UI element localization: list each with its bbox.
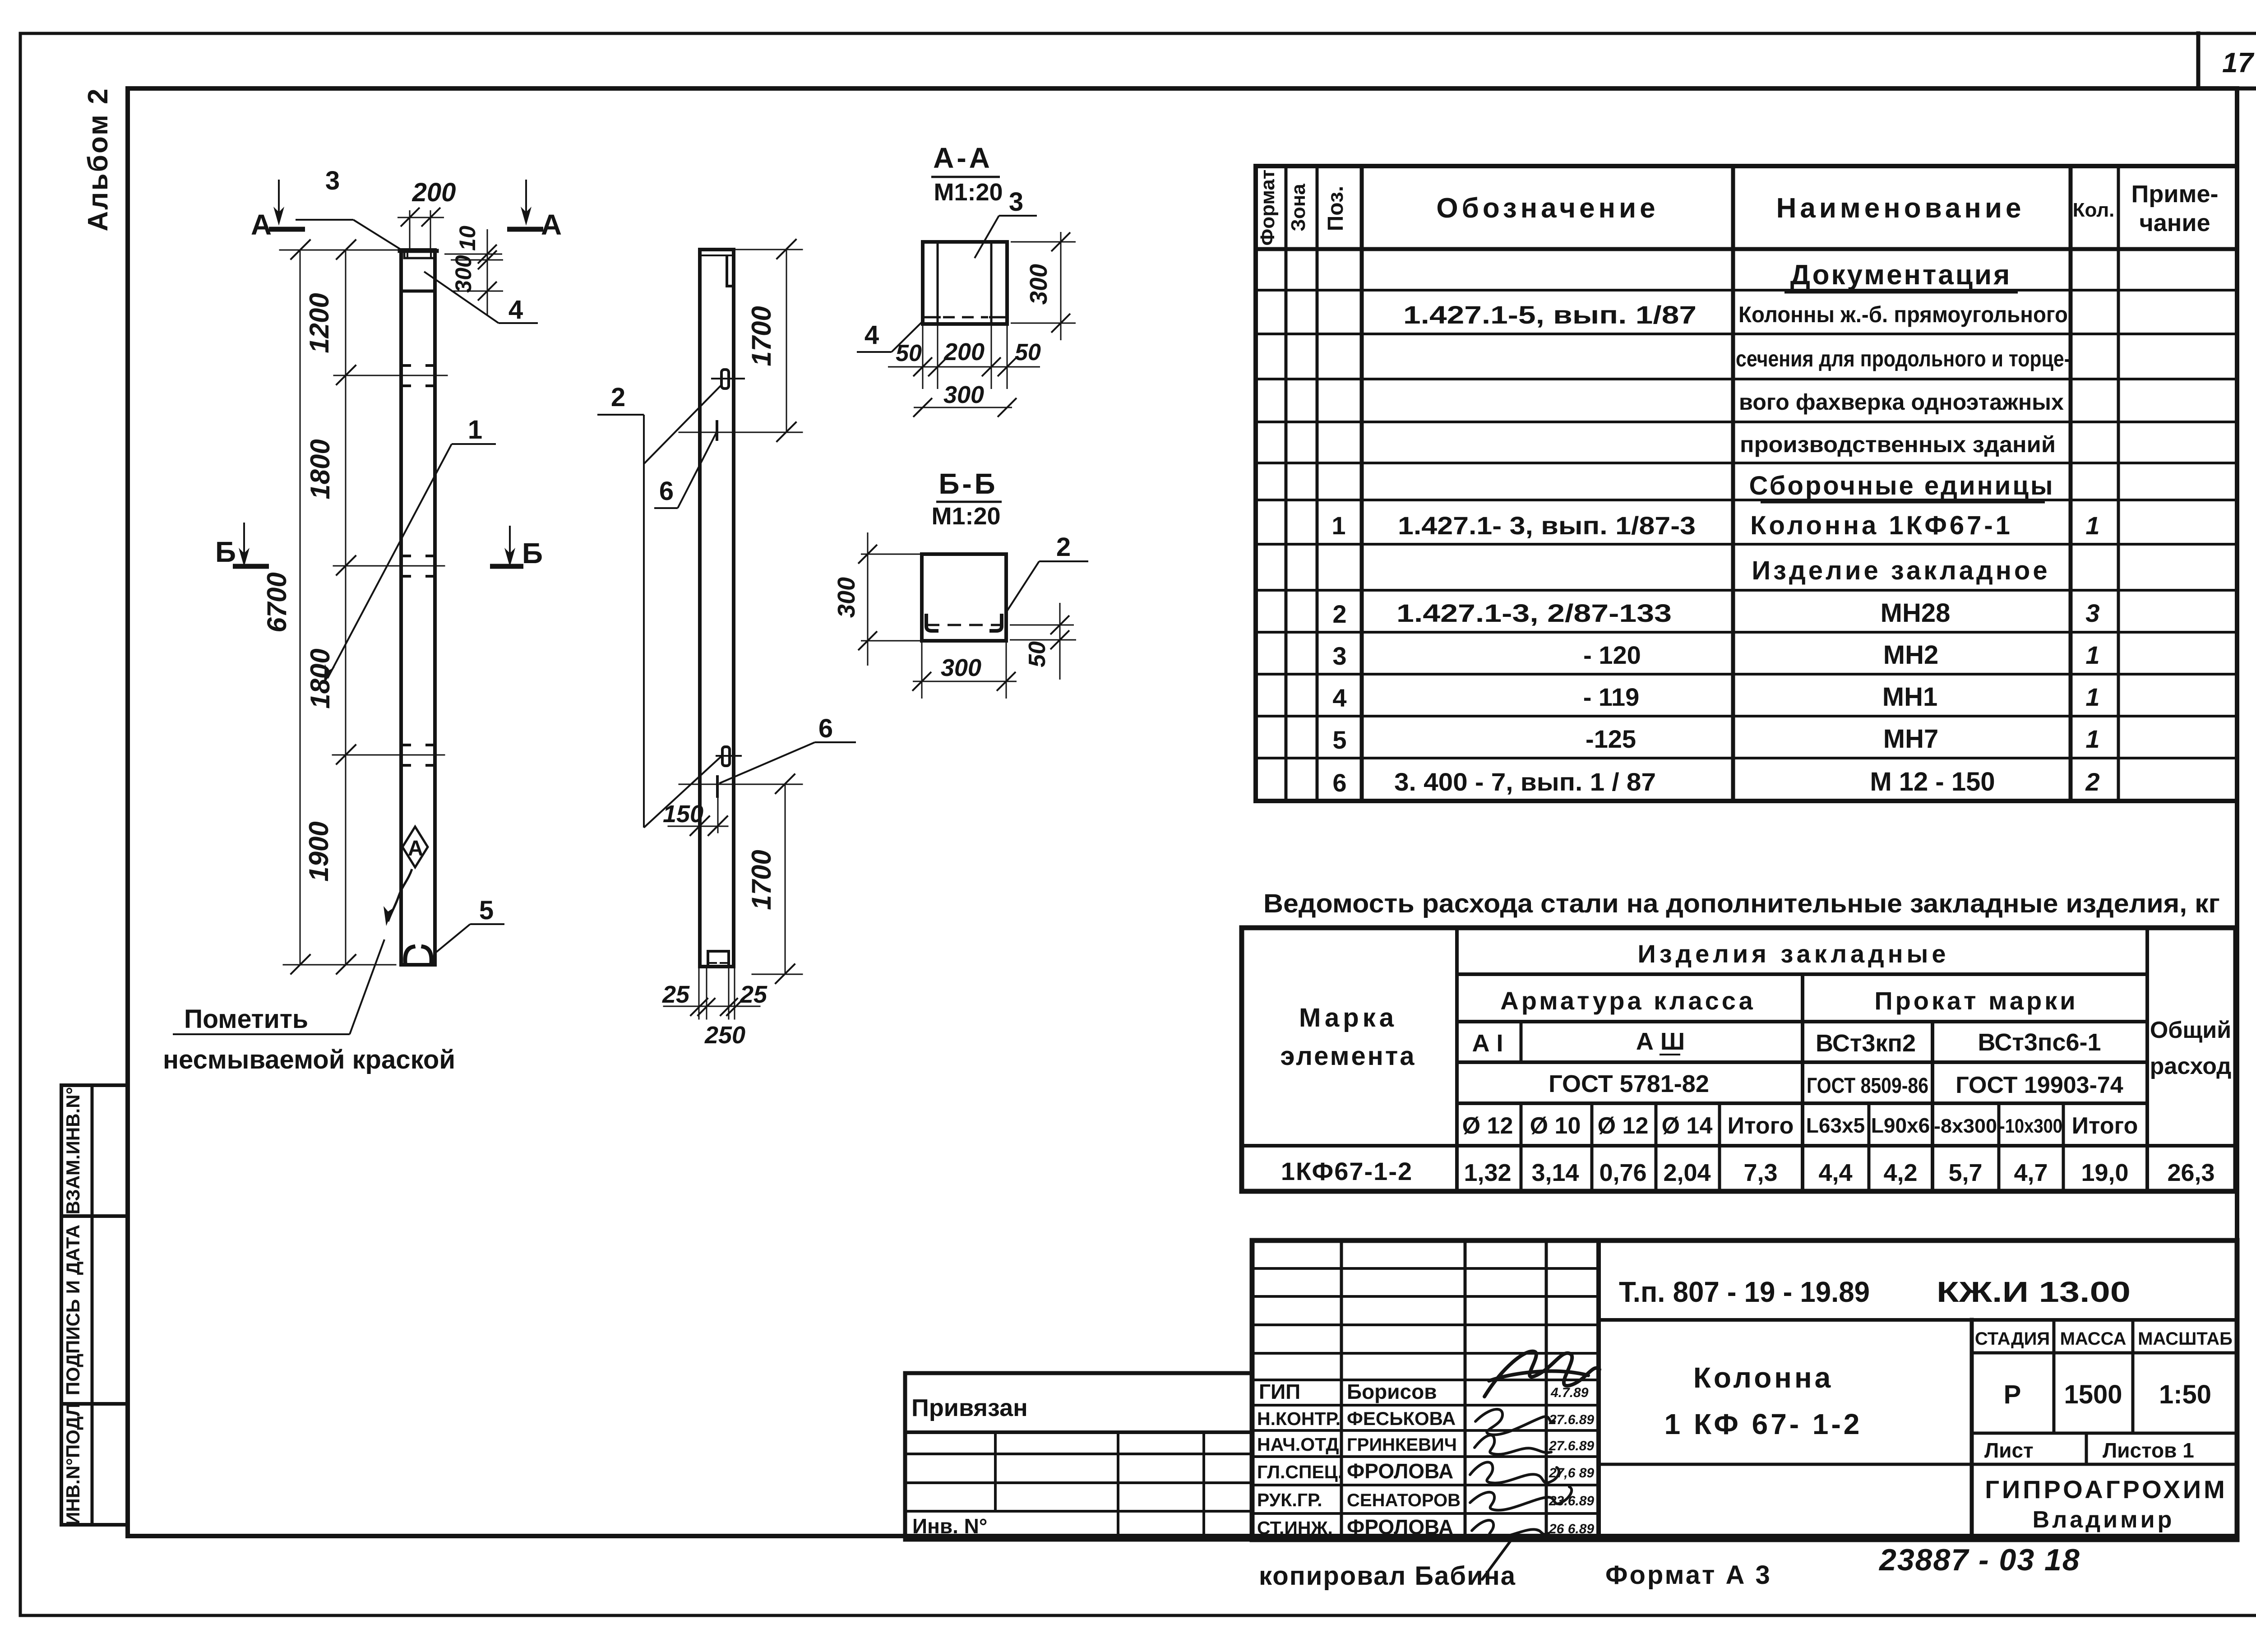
svg-text:РУК.ГР.: РУК.ГР. bbox=[1257, 1490, 1322, 1510]
svg-text:Колонна 1КФ67-1: Колонна 1КФ67-1 bbox=[1750, 511, 2013, 540]
svg-text:1900: 1900 bbox=[304, 821, 334, 881]
dim 10 and 300 right of top bbox=[444, 229, 503, 316]
svg-text:300: 300 bbox=[943, 381, 984, 408]
svg-text:1: 1 bbox=[2085, 511, 2099, 540]
svg-text:- 119: - 119 bbox=[1583, 683, 1640, 711]
svg-text:М 12 - 150: М 12 - 150 bbox=[1870, 767, 1995, 796]
svg-text:Обозначение: Обозначение bbox=[1436, 193, 1659, 224]
svg-text:300: 300 bbox=[941, 654, 981, 681]
svg-text:Б: Б bbox=[522, 537, 543, 569]
svg-text:1700: 1700 bbox=[746, 850, 777, 910]
label 1 with leader bbox=[324, 415, 496, 684]
svg-text:Поз.: Поз. bbox=[1324, 186, 1348, 231]
svg-text:3: 3 bbox=[325, 166, 340, 195]
level line at 958 bbox=[679, 432, 802, 433]
top side embed hook bbox=[727, 256, 734, 286]
svg-text:1800: 1800 bbox=[305, 648, 335, 708]
svg-text:23887 - 03 18: 23887 - 03 18 bbox=[1878, 1543, 2080, 1577]
embed slot 1 bbox=[721, 370, 729, 389]
signature dates bbox=[1549, 1385, 1594, 1536]
svg-text:Сборочные единицы: Сборочные единицы bbox=[1749, 471, 2055, 500]
svg-text:А: А bbox=[251, 208, 272, 241]
svg-text:10: 10 bbox=[455, 226, 480, 251]
svg-text:А Ш: А Ш bbox=[1636, 1028, 1685, 1055]
svg-text:МАСШТАБ: МАСШТАБ bbox=[2138, 1329, 2233, 1349]
svg-text:-125: -125 bbox=[1586, 725, 1636, 753]
svg-text:1: 1 bbox=[2085, 641, 2099, 669]
svg-text:МАССА: МАССА bbox=[2060, 1329, 2127, 1349]
signature table rows bbox=[1252, 1268, 1599, 1513]
label 6 with leader (lower right) bbox=[719, 714, 856, 783]
svg-text:Колонны ж.-б. прямоугольного: Колонны ж.-б. прямоугольного bbox=[1738, 302, 2068, 327]
svg-text:ВЗАМ.ИНВ.N°: ВЗАМ.ИНВ.N° bbox=[62, 1087, 83, 1215]
svg-text:НАЧ.ОТД.: НАЧ.ОТД. bbox=[1257, 1434, 1344, 1455]
svg-text:26,3: 26,3 bbox=[2167, 1159, 2214, 1186]
svg-text:элемента: элемента bbox=[1280, 1041, 1416, 1071]
embed bracket right at level 1673 bbox=[427, 745, 435, 765]
svg-text:ГРИНКЕВИЧ: ГРИНКЕВИЧ bbox=[1347, 1435, 1457, 1455]
tick line at 832 bbox=[334, 375, 447, 376]
extension line top bbox=[280, 250, 401, 251]
svg-text:17: 17 bbox=[2222, 47, 2254, 79]
signature Гринкевич bbox=[1475, 1435, 1551, 1454]
embed slot 2 bbox=[722, 747, 730, 766]
steel table grid bbox=[1242, 928, 2236, 1191]
svg-text:Итого: Итого bbox=[1728, 1113, 1794, 1139]
svg-text:Б-Б: Б-Б bbox=[938, 467, 998, 500]
svg-text:1,32: 1,32 bbox=[1464, 1159, 1511, 1186]
svg-text:МН2: МН2 bbox=[1883, 640, 1938, 670]
left attribute strip bbox=[61, 1085, 128, 1525]
A-A bottom dims bbox=[888, 326, 1040, 417]
slot 2 tick bbox=[717, 755, 741, 757]
svg-text:300: 300 bbox=[833, 577, 860, 618]
svg-text:Приме-: Приме- bbox=[2131, 180, 2219, 208]
top plate edge bbox=[700, 255, 734, 256]
svg-text:Листов 1: Листов 1 bbox=[2103, 1439, 2194, 1462]
signature Фролова 2 bbox=[1472, 1520, 1549, 1579]
svg-text:1500: 1500 bbox=[2064, 1380, 2122, 1409]
svg-text:-8x300: -8x300 bbox=[1934, 1115, 1997, 1137]
svg-text:КЖ.И 13.00: КЖ.И 13.00 bbox=[1937, 1276, 2131, 1308]
dimension 1700 lower bbox=[785, 784, 786, 974]
section marker Б right bbox=[490, 526, 543, 569]
svg-text:Ø 10: Ø 10 bbox=[1530, 1113, 1581, 1139]
svg-text:ВСт3кп2: ВСт3кп2 bbox=[1816, 1030, 1916, 1057]
top plate MH2 bbox=[400, 251, 437, 258]
Б-Б left dim 300 bbox=[858, 532, 922, 666]
svg-text:ГИПРОАГРОХИМ: ГИПРОАГРОХИМ bbox=[1985, 1475, 2228, 1504]
Б-Б right dim 50 bbox=[1010, 603, 1076, 680]
embedded section bottom line bbox=[401, 290, 435, 293]
signature Фролова bbox=[1470, 1462, 1559, 1483]
svg-text:3: 3 bbox=[1332, 642, 1346, 670]
svg-text:ГОСТ 5781-82: ГОСТ 5781-82 bbox=[1549, 1070, 1709, 1097]
svg-text:ПОДПИСЬ И ДАТА: ПОДПИСЬ И ДАТА bbox=[62, 1225, 83, 1395]
svg-text:А: А bbox=[408, 837, 424, 861]
svg-text:4.7.89: 4.7.89 bbox=[1550, 1385, 1589, 1400]
svg-text:27.6.89: 27.6.89 bbox=[1549, 1412, 1594, 1427]
sheet number box bbox=[2198, 33, 2256, 88]
svg-text:26 6.89: 26 6.89 bbox=[1549, 1522, 1594, 1536]
svg-text:Формат: Формат bbox=[1257, 170, 1279, 246]
dim 200 at top bbox=[398, 208, 444, 249]
svg-text:Колонна: Колонна bbox=[1693, 1361, 1833, 1394]
svg-text:1200: 1200 bbox=[304, 293, 334, 353]
title block outline bbox=[1252, 1240, 2237, 1540]
svg-text:несмываемой краской: несмываемой краской bbox=[163, 1045, 455, 1074]
signature Феськова bbox=[1475, 1409, 1554, 1435]
svg-text:5: 5 bbox=[1332, 726, 1346, 754]
plate line in A-A bbox=[923, 316, 941, 319]
label 2 with leader bbox=[597, 383, 723, 828]
svg-text:2: 2 bbox=[611, 383, 625, 412]
dimension line segments 1200/1800/1800/1900 bbox=[345, 250, 347, 965]
svg-text:Н.КОНТР.: Н.КОНТР. bbox=[1257, 1408, 1341, 1429]
svg-text:0,76: 0,76 bbox=[1599, 1159, 1646, 1186]
svg-text:Ø 12: Ø 12 bbox=[1462, 1113, 1513, 1139]
svg-text:Изделия закладные: Изделия закладные bbox=[1637, 939, 1949, 968]
svg-text:50: 50 bbox=[1024, 641, 1050, 667]
svg-text:1.427.1-3, 2/87-133: 1.427.1-3, 2/87-133 bbox=[1396, 599, 1672, 627]
level line at 1738 bbox=[679, 784, 802, 785]
main stamp area lines bbox=[1599, 1318, 2237, 1322]
column outline side view bbox=[700, 250, 734, 967]
dimension 1700 upper bbox=[786, 250, 787, 432]
row Документация bbox=[1784, 259, 2018, 292]
svg-text:Кол.: Кол. bbox=[2073, 199, 2115, 221]
svg-text:3: 3 bbox=[2085, 599, 2099, 627]
svg-text:ВСт3пс6-1: ВСт3пс6-1 bbox=[1978, 1029, 2101, 1056]
svg-text:сечения для продольного и торц: сечения для продольного и торце- bbox=[1736, 346, 2071, 371]
svg-text:4,4: 4,4 bbox=[1818, 1159, 1852, 1186]
svg-text:Формат А 3: Формат А 3 bbox=[1605, 1560, 1772, 1590]
svg-text:5: 5 bbox=[479, 896, 494, 925]
svg-text:-10x300: -10x300 bbox=[1999, 1115, 2062, 1137]
label 3 with leader bbox=[296, 166, 404, 251]
svg-text:6: 6 bbox=[1332, 768, 1346, 797]
svg-text:вого фахверка одноэтажных: вого фахверка одноэтажных bbox=[1739, 389, 2064, 415]
svg-text:1КФ67-1-2: 1КФ67-1-2 bbox=[1281, 1157, 1413, 1185]
svg-text:А-А: А-А bbox=[933, 142, 993, 174]
svg-text:19,0: 19,0 bbox=[2081, 1159, 2128, 1186]
section marker Б left bbox=[215, 523, 269, 568]
bolt mark 2 bbox=[716, 777, 719, 796]
svg-text:3. 400 - 7, вып. 1 / 87: 3. 400 - 7, вып. 1 / 87 bbox=[1394, 768, 1656, 796]
hidden plate dashed bbox=[926, 624, 1002, 626]
left extension table bbox=[905, 1373, 1252, 1540]
svg-text:ГОСТ 8509-86: ГОСТ 8509-86 bbox=[1807, 1074, 1928, 1098]
svg-text:300: 300 bbox=[451, 255, 476, 293]
corner embed left bbox=[926, 614, 938, 631]
embed bracket right at level 832 bbox=[427, 366, 435, 386]
signature Сенаторов bbox=[1470, 1487, 1572, 1510]
svg-text:производственных зданий: производственных зданий bbox=[1740, 432, 2056, 457]
tick slashes bbox=[291, 240, 356, 974]
svg-text:4: 4 bbox=[1332, 684, 1346, 712]
svg-text:4,7: 4,7 bbox=[2014, 1159, 2048, 1186]
svg-text:копировал Бабина: копировал Бабина bbox=[1259, 1561, 1516, 1591]
note Пометить несмываемой краской with leader bbox=[163, 939, 455, 1074]
section marker A right bbox=[507, 180, 562, 241]
svg-text:2: 2 bbox=[1332, 600, 1346, 628]
svg-text:Ø 14: Ø 14 bbox=[1662, 1113, 1713, 1139]
svg-text:25: 25 bbox=[740, 981, 767, 1008]
quality mark diamond with А bbox=[384, 827, 428, 926]
svg-text:Итого: Итого bbox=[2072, 1113, 2138, 1139]
svg-text:6700: 6700 bbox=[262, 572, 292, 632]
steel header АIII bbox=[1636, 1028, 1685, 1055]
svg-text:2: 2 bbox=[1056, 532, 1071, 562]
svg-text:Зона: Зона bbox=[1287, 184, 1309, 231]
svg-text:ГИП: ГИП bbox=[1259, 1380, 1300, 1403]
column outline bbox=[401, 250, 435, 965]
A-A right dim 300 bbox=[1011, 232, 1076, 340]
svg-text:300: 300 bbox=[1025, 264, 1052, 305]
svg-text:МН1: МН1 bbox=[1882, 682, 1937, 712]
svg-text:L63x5: L63x5 bbox=[1806, 1114, 1865, 1137]
svg-text:Документация: Документация bbox=[1790, 259, 2012, 291]
svg-text:СТ.ИНЖ.: СТ.ИНЖ. bbox=[1257, 1518, 1333, 1538]
svg-text:Общий: Общий bbox=[2150, 1017, 2231, 1043]
svg-text:1: 1 bbox=[2085, 725, 2099, 753]
svg-text:7,3: 7,3 bbox=[1743, 1159, 1777, 1186]
svg-text:СЕНАТОРОВ: СЕНАТОРОВ bbox=[1347, 1490, 1461, 1510]
signature table verticals bbox=[1340, 1240, 1343, 1540]
svg-text:М1:20: М1:20 bbox=[934, 179, 1003, 206]
embed bracket left at level 1673 bbox=[402, 745, 410, 765]
svg-text:1.427.1- 3, вып. 1/87-3: 1.427.1- 3, вып. 1/87-3 bbox=[1398, 511, 1696, 540]
tick line at 1254 bbox=[333, 565, 444, 567]
svg-text:Альбом 2: Альбом 2 bbox=[83, 87, 114, 231]
svg-text:Т.п. 807 - 19 - 19.89: Т.п. 807 - 19 - 19.89 bbox=[1619, 1276, 1870, 1308]
svg-text:200: 200 bbox=[943, 338, 985, 366]
svg-text:Борисов: Борисов bbox=[1347, 1380, 1437, 1403]
extension line top bbox=[734, 249, 802, 250]
svg-text:ИНВ.N°ПОДЛ: ИНВ.N°ПОДЛ bbox=[62, 1403, 83, 1525]
row Сборочные единицы bbox=[1749, 471, 2055, 502]
svg-text:1700: 1700 bbox=[746, 306, 777, 366]
svg-text:ГОСТ 19903-74: ГОСТ 19903-74 bbox=[1956, 1072, 2123, 1098]
svg-text:ФЕСЬКОВА: ФЕСЬКОВА bbox=[1347, 1408, 1456, 1429]
svg-text:ФРОЛОВА: ФРОЛОВА bbox=[1347, 1459, 1453, 1483]
dimension line 25/250/25 bbox=[664, 1006, 760, 1007]
svg-text:1: 1 bbox=[2085, 683, 2099, 711]
section A-A square bbox=[923, 242, 1007, 324]
svg-text:1 КФ 67- 1-2: 1 КФ 67- 1-2 bbox=[1664, 1408, 1863, 1440]
svg-text:4: 4 bbox=[864, 320, 879, 350]
svg-text:чание: чание bbox=[2139, 209, 2210, 236]
svg-text:МН28: МН28 bbox=[1881, 598, 1951, 628]
svg-text:Пометить: Пометить bbox=[184, 1004, 308, 1034]
svg-text:Б: Б bbox=[215, 536, 236, 568]
dimension line 6700 bbox=[300, 250, 301, 965]
svg-text:А: А bbox=[541, 208, 562, 241]
svg-text:Изделие закладное: Изделие закладное bbox=[1752, 556, 2050, 585]
svg-text:Инв. N°: Инв. N° bbox=[912, 1514, 987, 1538]
svg-text:2: 2 bbox=[2085, 768, 2099, 796]
svg-text:250: 250 bbox=[704, 1022, 745, 1049]
svg-text:4: 4 bbox=[509, 295, 523, 324]
svg-text:6: 6 bbox=[818, 714, 833, 743]
svg-text:27.6.89: 27.6.89 bbox=[1549, 1439, 1594, 1453]
svg-text:А I: А I bbox=[1472, 1030, 1503, 1057]
svg-text:1: 1 bbox=[1331, 511, 1345, 540]
svg-text:Наименование: Наименование bbox=[1776, 193, 2025, 224]
tick line at 1673 bbox=[333, 754, 444, 756]
bottom extension lines bbox=[698, 968, 700, 1019]
svg-text:6: 6 bbox=[659, 477, 674, 506]
dimension 150 bbox=[717, 796, 719, 833]
signature scribbles bbox=[1470, 1351, 1600, 1579]
svg-text:Р: Р bbox=[2004, 1380, 2021, 1409]
svg-text:1800: 1800 bbox=[305, 439, 335, 499]
svg-text:25: 25 bbox=[662, 981, 690, 1008]
svg-text:М1:20: М1:20 bbox=[931, 503, 1000, 530]
svg-text:СТАДИЯ: СТАДИЯ bbox=[1975, 1329, 2050, 1349]
svg-text:Прокат марки: Прокат марки bbox=[1874, 986, 2078, 1015]
svg-text:Ø 12: Ø 12 bbox=[1598, 1113, 1649, 1139]
label 4 with leader bbox=[424, 272, 538, 324]
svg-text:2,04: 2,04 bbox=[1663, 1159, 1710, 1186]
svg-text:МН7: МН7 bbox=[1883, 724, 1938, 754]
svg-text:1: 1 bbox=[468, 415, 482, 444]
svg-text:200: 200 bbox=[412, 178, 456, 207]
svg-text:1:50: 1:50 bbox=[2159, 1380, 2211, 1409]
section marker A left bbox=[251, 180, 305, 241]
svg-text:Марка: Марка bbox=[1299, 1003, 1397, 1032]
bottom corner anchor left bbox=[405, 947, 413, 963]
svg-text:3,14: 3,14 bbox=[1531, 1159, 1579, 1186]
svg-text:Арматура класса: Арматура класса bbox=[1500, 986, 1755, 1015]
svg-text:- 120: - 120 bbox=[1583, 641, 1641, 669]
bottom anchor box MH7 bbox=[708, 951, 729, 967]
svg-text:4,2: 4,2 bbox=[1883, 1159, 1917, 1186]
svg-text:Лист: Лист bbox=[1984, 1439, 2034, 1462]
svg-text:1.427.1-5, вып. 1/87: 1.427.1-5, вып. 1/87 bbox=[1403, 301, 1697, 329]
Б-Б bottom dim 300 bbox=[912, 643, 1017, 699]
section Б-Б square bbox=[922, 554, 1006, 641]
svg-text:5,7: 5,7 bbox=[1948, 1159, 1982, 1186]
corner embed right bbox=[989, 614, 1002, 631]
svg-text:ГЛ.СПЕЦ.: ГЛ.СПЕЦ. bbox=[1257, 1462, 1343, 1482]
svg-text:L90x6: L90x6 bbox=[1871, 1114, 1930, 1137]
label 6 with leader (upper) bbox=[654, 433, 716, 508]
signature rows texts bbox=[1257, 1380, 1461, 1539]
svg-text:3: 3 bbox=[1009, 187, 1023, 217]
extension line bottom bbox=[283, 964, 396, 966]
spec table grid bbox=[1256, 166, 2237, 801]
label 5 with leader bbox=[434, 896, 504, 954]
svg-text:50: 50 bbox=[896, 340, 922, 366]
svg-text:расход: расход bbox=[2150, 1053, 2232, 1079]
embed bracket left at level 1254 bbox=[402, 556, 410, 576]
svg-text:50: 50 bbox=[1015, 339, 1041, 366]
slot 1 tick bbox=[712, 378, 744, 379]
bottom corner anchor right bbox=[423, 947, 431, 963]
signature Борисов bbox=[1484, 1351, 1600, 1397]
svg-text:Владимир: Владимир bbox=[2033, 1507, 2175, 1533]
embed bracket left at level 832 bbox=[402, 366, 410, 386]
svg-text:Ведомость расхода стали на: Ведомость расхода стали на дополнительны… bbox=[1263, 889, 2220, 918]
bolt mark 1 bbox=[716, 421, 718, 440]
svg-text:ФРОЛОВА: ФРОЛОВА bbox=[1347, 1515, 1453, 1539]
embed bracket right at level 1254 bbox=[427, 556, 435, 576]
svg-text:Привязан: Привязан bbox=[911, 1394, 1028, 1421]
